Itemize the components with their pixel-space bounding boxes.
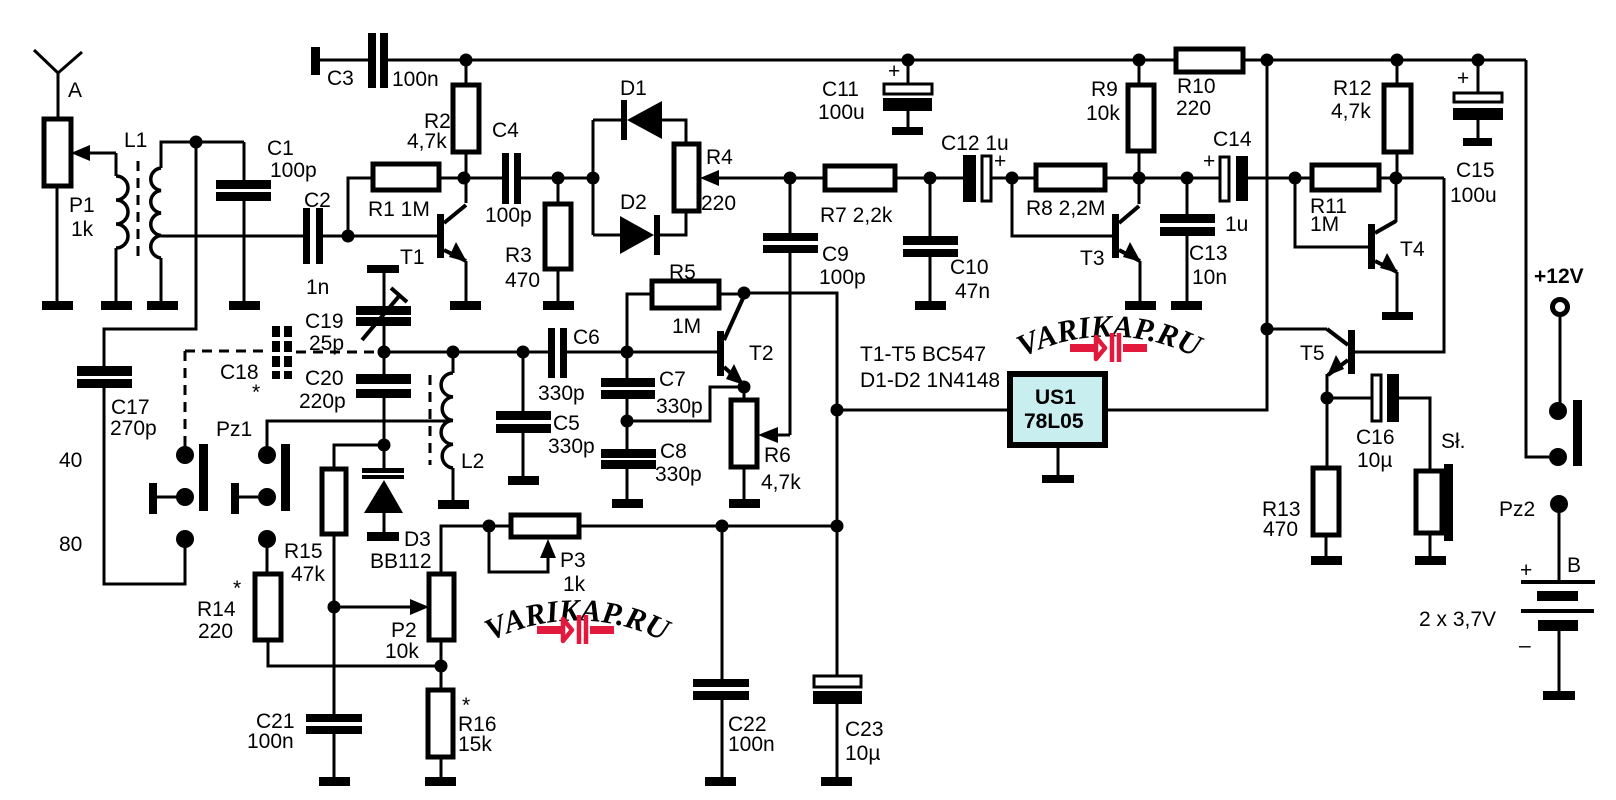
transistor T5	[1267, 329, 1355, 398]
wire L1 tap to C2	[161, 235, 303, 238]
svg-text:R3: R3	[505, 244, 532, 267]
node C10 top	[924, 172, 937, 185]
svg-text:10k: 10k	[1086, 102, 1120, 125]
resistor R13 470	[1262, 398, 1339, 556]
svg-text:US1: US1	[1035, 386, 1076, 409]
ground (C11)	[892, 127, 923, 135]
svg-text:47n: 47n	[955, 280, 990, 303]
node R1/R2/C4/T1 collector	[458, 172, 471, 185]
node R11/R12/T4 collector	[1390, 172, 1403, 185]
svg-text:C16: C16	[1356, 426, 1395, 449]
svg-text:1M: 1M	[1310, 213, 1339, 236]
svg-text:R8 2,2M: R8 2,2M	[1026, 197, 1105, 220]
node P2/R16/R14	[435, 660, 448, 673]
ground (T1)	[450, 301, 481, 310]
svg-text:C19: C19	[305, 310, 344, 333]
capacitor C22 100n	[693, 526, 775, 777]
node R5/T2 collector	[738, 287, 751, 300]
wire bias rail to P3	[441, 526, 837, 574]
ground (C13)	[1171, 301, 1202, 310]
node R15/C21/P2-wiper	[328, 601, 341, 614]
svg-text:40: 40	[59, 449, 82, 472]
node R4 wiper/R7/C9	[784, 172, 797, 185]
node L2 top	[447, 346, 460, 359]
capacitor C2 1n	[303, 189, 437, 299]
wire L1 junction down to C17	[104, 142, 196, 366]
resistor R1 1M	[368, 164, 464, 221]
wire C9/R6 wiper	[789, 253, 792, 435]
svg-text:Sł.: Sł.	[1441, 430, 1466, 453]
resistor R16 15k	[428, 666, 497, 777]
ground (C1)	[229, 301, 260, 310]
svg-text:+: +	[1203, 150, 1215, 173]
svg-text:C15: C15	[1456, 159, 1495, 182]
resistor R7 2,2k	[790, 166, 963, 227]
svg-text:100p: 100p	[485, 204, 532, 227]
svg-text:1M: 1M	[672, 315, 701, 338]
ground (C21)	[319, 777, 350, 786]
svg-text:D3: D3	[404, 528, 431, 551]
svg-text:R5: R5	[669, 261, 696, 284]
wire C7/C8 node to T2 emitter	[627, 387, 744, 421]
svg-text:R12: R12	[1333, 77, 1372, 100]
ground (L2)	[438, 500, 469, 509]
svg-text:330p: 330p	[655, 463, 702, 486]
ground (earphone)	[1415, 556, 1446, 565]
ground (C15)	[1463, 138, 1492, 146]
node L1/C1 junction	[190, 136, 203, 149]
svg-text:C17: C17	[111, 396, 150, 419]
node C4/R3	[552, 172, 565, 185]
capacitor C5 330p	[496, 352, 595, 476]
wire node to R15	[334, 445, 384, 469]
node C6/C7/R5 junction	[621, 346, 634, 359]
capacitor C20 220p	[299, 352, 411, 445]
svg-text:C2: C2	[304, 189, 331, 212]
ground (C8)	[612, 499, 643, 508]
antenna A	[34, 50, 82, 119]
transistor T4	[1368, 178, 1425, 312]
svg-text:–: –	[1519, 634, 1531, 657]
svg-text:L1: L1	[124, 129, 147, 152]
earphone Sl.	[1416, 430, 1466, 556]
svg-text:220p: 220p	[299, 390, 346, 413]
svg-text:78L05: 78L05	[1024, 410, 1084, 433]
svg-text:R15: R15	[284, 540, 323, 563]
svg-text:B: B	[1567, 554, 1581, 577]
trimmer capacitor C18	[185, 326, 378, 448]
svg-text:C11: C11	[822, 78, 859, 101]
resistor R12 4,7k	[1331, 60, 1411, 178]
ground (L1 secondary)	[147, 301, 178, 310]
svg-text:100n: 100n	[392, 68, 439, 91]
electrolytic capacitor C14 1u	[1203, 128, 1312, 236]
node rail/+12V feed	[1261, 54, 1274, 67]
note T1-T5 BC547 / D1-D2 1N4148	[860, 343, 1000, 392]
power connector contacts	[1526, 60, 1582, 466]
wire 5V node vertical	[836, 410, 839, 675]
ground (battery)	[1543, 691, 1575, 700]
resistor R9 10k	[1086, 60, 1154, 178]
svg-text:A: A	[68, 79, 82, 102]
+12V terminal	[1534, 265, 1584, 411]
svg-text:*: *	[462, 694, 470, 717]
svg-text:10n: 10n	[1192, 266, 1227, 289]
svg-text:100n: 100n	[728, 733, 775, 756]
inductor L1 (transformer)	[116, 129, 244, 301]
svg-text:4,7k: 4,7k	[407, 130, 447, 153]
svg-text:100p: 100p	[270, 159, 317, 182]
svg-text:*: *	[252, 381, 260, 404]
svg-text:C5: C5	[553, 412, 580, 435]
svg-text:470: 470	[505, 269, 540, 292]
capacitor C17 270p	[77, 366, 185, 584]
capacitor C7 330p	[601, 352, 703, 421]
svg-text:330p: 330p	[656, 395, 703, 418]
node D1/D2 branch	[587, 172, 600, 185]
node T2 emitter/R6	[738, 381, 751, 394]
svg-text:T5: T5	[1300, 342, 1325, 365]
svg-text:100n: 100n	[247, 730, 294, 753]
ground (T3)	[1125, 301, 1156, 310]
svg-text:T1: T1	[400, 246, 425, 269]
node rail/C11	[902, 54, 915, 67]
svg-text:C12 1u: C12 1u	[941, 132, 1009, 155]
inductor L2	[430, 352, 484, 500]
resistor R14 220	[197, 574, 441, 666]
node rail/R12	[1391, 54, 1404, 67]
svg-text:4,7k: 4,7k	[1331, 100, 1371, 123]
transistor T1	[400, 178, 467, 301]
node R9/T3 collector	[1133, 172, 1146, 185]
svg-text:1n: 1n	[306, 276, 329, 299]
electrolytic capacitor C16 10u	[1327, 374, 1430, 472]
svg-text:80: 80	[59, 533, 82, 556]
svg-text:R9: R9	[1091, 78, 1118, 101]
node rail/R9	[1133, 54, 1146, 67]
capacitor C21 100n	[247, 607, 362, 777]
watermark VARIKAP.RU (upper)	[1011, 308, 1208, 364]
watermark VARIKAP.RU (lower)	[479, 592, 676, 648]
svg-text:C23: C23	[845, 718, 884, 741]
svg-text:P1: P1	[69, 194, 95, 217]
resistor R11 1M	[1310, 165, 1444, 236]
transistor T2	[717, 296, 774, 387]
voltage regulator US1 78L05	[837, 374, 1105, 475]
svg-text:+: +	[1520, 559, 1532, 582]
svg-text:T4: T4	[1400, 238, 1425, 261]
capacitor C8 330p	[601, 421, 702, 499]
ground (C10)	[915, 301, 946, 310]
svg-text:1u: 1u	[1225, 213, 1248, 236]
node C5 top	[517, 346, 530, 359]
wire oscillator node (C19/C20 to T2 base)	[384, 351, 717, 354]
svg-text:C8: C8	[660, 440, 687, 463]
svg-text:2 x 3,7V: 2 x 3,7V	[1419, 608, 1496, 631]
svg-text:10µ: 10µ	[845, 742, 880, 765]
svg-text:220: 220	[701, 192, 736, 215]
resistor R5 1M	[627, 261, 744, 352]
svg-text:470: 470	[1263, 518, 1298, 541]
capacitor C3 100n	[311, 33, 1176, 91]
svg-text:*: *	[233, 577, 241, 600]
node C22 top	[716, 520, 729, 533]
node C20/D3/R15 junction	[378, 439, 391, 452]
resistor R2 4,7k	[407, 60, 479, 178]
svg-text:+: +	[888, 60, 900, 83]
potentiometer R6 4,7k	[731, 387, 801, 499]
potentiometer P1 1k	[44, 119, 116, 301]
ground (L1 primary)	[101, 301, 132, 310]
svg-text:D2: D2	[620, 191, 647, 214]
svg-text:220: 220	[1176, 97, 1211, 120]
capacitor C6 330p	[538, 326, 600, 405]
svg-text:+12V: +12V	[1534, 265, 1584, 288]
wire +12V feed down to US1 input	[1105, 60, 1267, 410]
svg-text:R7 2,2k: R7 2,2k	[820, 204, 893, 227]
svg-text:C4: C4	[492, 119, 519, 142]
potentiometer P2 10k	[385, 574, 454, 666]
electrolytic capacitor C15 100u	[1450, 60, 1503, 207]
node P3 wiper loop	[483, 520, 496, 533]
svg-text:100u: 100u	[818, 101, 865, 124]
wire C2 node up to R1	[348, 178, 373, 236]
potentiometer P3 1k	[489, 515, 586, 596]
node +12V/T5 collector	[1261, 323, 1274, 336]
svg-text:R4: R4	[706, 146, 733, 169]
ground (R13)	[1311, 556, 1342, 565]
potentiometer R4 220	[674, 144, 790, 215]
capacitor C10 47n	[903, 178, 990, 303]
svg-text:10k: 10k	[385, 640, 419, 663]
resistor R15 47k	[284, 469, 346, 607]
svg-text:+: +	[1457, 67, 1469, 90]
node US1 output/C23/bias rail	[831, 404, 844, 417]
svg-text:C9: C9	[822, 243, 849, 266]
svg-text:C20: C20	[305, 367, 344, 390]
capacitor C1 100p	[216, 137, 317, 301]
capacitor C13 10n	[1160, 178, 1228, 301]
resistor R8 2,2M	[1026, 165, 1219, 220]
svg-text:R10: R10	[1177, 75, 1216, 98]
node T5 emitter/R13/C16	[1321, 392, 1334, 405]
svg-text:C13: C13	[1189, 242, 1228, 265]
node rail/R2	[460, 54, 473, 67]
capacitor C9 100p	[763, 178, 866, 289]
svg-text:Pz2: Pz2	[1499, 498, 1535, 521]
battery B 2x3,7V	[1419, 554, 1595, 691]
svg-text:BB112: BB112	[370, 550, 432, 573]
svg-text:330p: 330p	[538, 382, 585, 405]
ground (P1)	[42, 301, 73, 310]
node T4 base branch	[1289, 172, 1302, 185]
svg-text:25p: 25p	[309, 332, 344, 355]
switch Pz1 (80m section)	[216, 418, 290, 548]
svg-text:C7: C7	[659, 368, 686, 391]
svg-text:D1-D2 1N4148: D1-D2 1N4148	[860, 369, 1000, 392]
ground (C23)	[821, 777, 852, 786]
ground (R6)	[729, 499, 760, 508]
connector Pz2	[1499, 495, 1568, 580]
svg-text:C3: C3	[327, 67, 354, 90]
svg-text:C6: C6	[573, 326, 600, 349]
node C13 top	[1181, 172, 1194, 185]
ground (US1)	[1042, 475, 1074, 483]
wire D1/D2 left branch	[592, 120, 595, 235]
svg-text:T3: T3	[1080, 247, 1105, 270]
svg-text:10µ: 10µ	[1357, 449, 1392, 472]
ground (C22)	[705, 777, 736, 786]
transistor T3	[1080, 178, 1141, 301]
svg-text:47k: 47k	[291, 563, 325, 586]
svg-text:100p: 100p	[819, 266, 866, 289]
wire P1 wiper to L1 primary top	[115, 153, 118, 176]
node bias rail	[831, 520, 844, 533]
node C12/T3 base branch	[1006, 172, 1019, 185]
resistor R10 220	[1176, 49, 1526, 120]
svg-text:1k: 1k	[71, 218, 94, 241]
diode D1 1N4148	[593, 77, 686, 144]
resistor R3 470	[505, 178, 571, 301]
node C7/C8 junction	[621, 415, 634, 428]
svg-text:C1: C1	[267, 137, 294, 160]
svg-text:330p: 330p	[548, 435, 595, 458]
wire T4 collector node to T5 base	[1355, 178, 1444, 352]
wire T4 base feed	[1295, 178, 1368, 247]
ground (D3)	[367, 532, 399, 541]
svg-text:T1-T5 BC547: T1-T5 BC547	[860, 343, 986, 366]
svg-text:L2: L2	[461, 450, 484, 473]
node C19/C20/C18 junction	[378, 346, 391, 359]
svg-text:R1 1M: R1 1M	[368, 198, 430, 221]
ground (T4)	[1382, 312, 1413, 320]
wire T3 base feed	[1012, 178, 1113, 236]
svg-text:Pz1: Pz1	[216, 418, 252, 441]
variable capacitor C19 25p	[305, 265, 411, 355]
ground (R3)	[543, 301, 574, 310]
ground (C5)	[508, 476, 539, 485]
svg-text:220: 220	[198, 620, 233, 643]
svg-text:P3: P3	[560, 549, 586, 572]
svg-text:P2: P2	[391, 619, 417, 642]
svg-text:100u: 100u	[1450, 184, 1497, 207]
svg-text:T2: T2	[749, 342, 774, 365]
node C2/R1/T1 base	[342, 230, 355, 243]
node rail/C15	[1472, 54, 1485, 67]
varicap diode D3 BB112	[362, 445, 432, 573]
svg-text:C10: C10	[950, 256, 989, 279]
electrolytic capacitor C12 1u	[941, 132, 1036, 202]
wire Pz1 bottom contact to R14	[266, 539, 269, 574]
capacitor C4 100p	[464, 119, 593, 227]
wire T2 collector node to US1 output	[744, 293, 837, 410]
ground (R16)	[425, 777, 456, 786]
wire node to P2 wiper arrow	[334, 606, 412, 609]
svg-text:C14: C14	[1213, 128, 1252, 151]
diode D2 1N4148	[593, 191, 686, 255]
electrolytic capacitor C23 10u	[813, 676, 884, 777]
svg-text:4,7k: 4,7k	[761, 471, 801, 494]
wire Pz1 top contact to L2 tap	[267, 421, 451, 455]
electrolytic capacitor C11 100u	[818, 60, 932, 128]
svg-text:D1: D1	[620, 77, 647, 100]
svg-text:R6: R6	[764, 444, 791, 467]
svg-text:R14: R14	[197, 598, 236, 621]
switch (40m section)	[149, 444, 208, 548]
svg-text:15k: 15k	[458, 733, 492, 756]
svg-text:270p: 270p	[110, 417, 157, 440]
